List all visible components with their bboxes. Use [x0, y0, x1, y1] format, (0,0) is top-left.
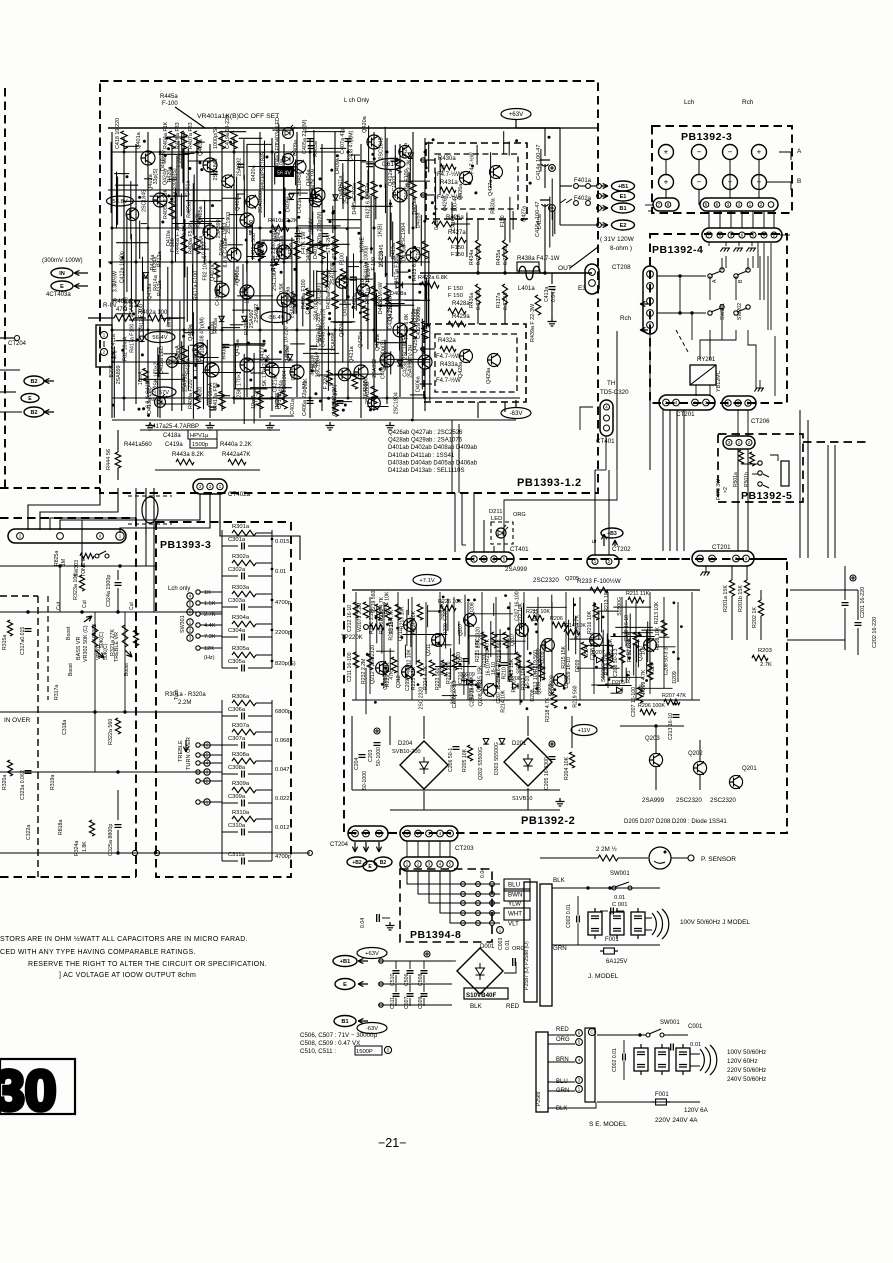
svg-text:2SA992: 2SA992	[372, 359, 378, 378]
module driver lower inner box	[435, 334, 517, 392]
wire amp column x160	[159, 138, 161, 418]
node amp dot 86	[408, 276, 411, 279]
wire amp seg v76	[158, 355, 160, 378]
node amp dot 83	[347, 295, 350, 298]
wire amp seg v30	[142, 275, 144, 341]
wire amp seg v24	[389, 200, 391, 257]
svg-text:IN OVER: IN OVER	[4, 717, 31, 724]
wire pb2 seg h2	[402, 634, 447, 636]
capacitor C413a 0.047	[551, 273, 553, 284]
node pb2 dot 49	[459, 663, 462, 666]
svg-text:HPV1µ: HPV1µ	[190, 433, 209, 439]
node amp dot 92	[411, 418, 414, 421]
node amp dot 89	[211, 204, 214, 207]
wire amp stub 13	[163, 353, 177, 355]
wire pb2 seg v28	[649, 622, 651, 663]
svg-text:C507: C507	[404, 996, 410, 1009]
wire amp seg v69	[126, 215, 128, 292]
svg-text:R204 10K: R204 10K	[564, 756, 570, 780]
resistor amp extra 1	[340, 269, 346, 284]
svg-text:R440a 2.2K: R440a 2.2K	[220, 442, 252, 448]
wire pb1392-2 col 440	[439, 592, 441, 688]
resistor C207 16-100	[637, 687, 643, 703]
svg-text:C510: C510	[390, 973, 396, 986]
diode amp extra 43	[397, 361, 402, 366]
wire amp column x374	[373, 132, 375, 411]
svg-text:2.7K: 2.7K	[760, 662, 772, 668]
node amp dot 87	[266, 156, 269, 159]
node amp dot 1	[143, 140, 146, 143]
resistor 13.6mA	[181, 346, 187, 364]
svg-text:Q425a: Q425a	[358, 332, 364, 348]
wire amp stub 0	[236, 193, 245, 195]
wire left CT204 stub	[0, 337, 14, 339]
node amp dot 85	[328, 333, 331, 336]
wire amp seg v9	[138, 327, 140, 381]
wire lower driver verticals	[477, 304, 479, 324]
wire amp seg v0	[313, 130, 315, 165]
svg-text:C510, C511 :: C510, C511 :	[300, 1048, 336, 1055]
node amp dot 37	[277, 254, 280, 257]
node pb2 dot 43	[520, 700, 523, 703]
resistor amp extra 21	[214, 262, 220, 277]
wire pb2 seg v17	[519, 661, 521, 705]
wire amp seg v82	[184, 219, 186, 277]
wire pb2 seg v49	[490, 621, 492, 657]
svg-text:C405a 22p(M): C405a 22p(M)	[302, 119, 308, 154]
wire amp seg v78	[183, 153, 185, 224]
diode amp extra 3	[143, 273, 148, 278]
wire spk drops2	[665, 189, 667, 198]
resistor R137a 0.225W	[502, 284, 507, 304]
svg-text:R215 15K: R215 15K	[561, 645, 567, 668]
resistor D407a	[319, 241, 325, 259]
diode D207	[597, 657, 603, 663]
svg-text:2SC1845: 2SC1845	[378, 137, 384, 159]
svg-text:2SA1008: 2SA1008	[314, 298, 320, 320]
svg-text:D208: D208	[530, 689, 536, 701]
svg-text:Q428a: Q428a	[458, 362, 464, 378]
svg-text:R436a: R436a	[469, 293, 475, 308]
wire amp seg h13	[261, 239, 294, 241]
connector CT203 row2	[400, 857, 458, 871]
wire pb2 seg v45	[647, 622, 649, 663]
wire tone row extend 612	[160, 611, 222, 613]
terminal speaker − B	[692, 175, 707, 190]
svg-text:2SK 170×2: 2SK 170×2	[237, 371, 243, 397]
svg-text:R212 10K: R212 10K	[518, 602, 524, 625]
svg-text:F82 10mA: F82 10mA	[208, 382, 214, 407]
wire pb3 strip drop 731	[730, 211, 732, 228]
diode amp extra 35	[288, 194, 293, 199]
svg-text:C325a 8800p: C325a 8800p	[108, 824, 114, 856]
resistor amp extra 29	[291, 292, 297, 307]
wire staircase left 2	[40, 488, 118, 530]
wire long feed ct202	[594, 470, 596, 528]
wire amp seg h45	[190, 151, 211, 153]
svg-text:2SC 2320: 2SC 2320	[418, 687, 424, 710]
node pb2 dot 2	[504, 594, 507, 597]
capacitor amp extra 38	[222, 345, 229, 348]
wire pb2 seg h16	[491, 640, 525, 642]
node amp dot 60	[288, 219, 291, 222]
terminal B1 bottom	[334, 1016, 356, 1027]
svg-text:470: 470	[275, 233, 281, 242]
ground row2 c	[746, 248, 756, 252]
wire amp seg v39	[313, 270, 315, 297]
wire amp seg h61	[247, 143, 272, 145]
transistor Q410a 2SG1024	[205, 363, 219, 377]
capacitor C203 50-1000	[374, 728, 380, 734]
svg-text:C408 47p(M): C408 47p(M)	[348, 130, 354, 161]
resistor C419a 10-220	[231, 131, 237, 149]
svg-text:C210 16-10: C210 16-10	[469, 680, 475, 707]
svg-text:×2: ×2	[723, 487, 729, 493]
board PB1393-3 dashed line left	[135, 518, 137, 877]
wire se wires	[548, 1034, 575, 1036]
transistor amp extra 40	[368, 397, 381, 410]
resistor R220 47K	[491, 632, 497, 648]
wire drv seg v0	[509, 197, 511, 243]
svg-text:D410ab D411ab : 1SS41: D410ab D411ab : 1SS41	[388, 453, 455, 459]
svg-text:C003: C003	[498, 937, 504, 950]
svg-text:D406a: D406a	[306, 247, 312, 263]
svg-text:F001: F001	[655, 1092, 669, 1098]
svg-text:R307a: R307a	[232, 723, 250, 729]
wire pb3 crossbar	[648, 210, 653, 212]
wire amp seg v91	[409, 156, 411, 181]
node amp dot 19	[247, 342, 250, 345]
svg-text:Cut: Cut	[129, 602, 135, 610]
wire amp seg h56	[239, 137, 262, 139]
wire amp seg h1	[387, 358, 430, 360]
wire amp seg v37	[192, 244, 194, 273]
switch pin 1	[187, 619, 193, 625]
svg-text:2SC1904: 2SC1904	[401, 223, 407, 246]
svg-text:C203: C203	[368, 749, 374, 762]
svg-text:Q421a: Q421a	[349, 345, 355, 363]
svg-text:CT208: CT208	[612, 264, 631, 271]
svg-text:C204: C204	[354, 757, 360, 770]
switch pin 4	[187, 593, 193, 599]
svg-text:30: 30	[0, 1059, 56, 1123]
svg-text:TURN OVER: TURN OVER	[186, 737, 192, 770]
wire VLT	[450, 871, 500, 923]
connector se pin 3	[576, 1077, 583, 1084]
wire amp seg h14	[184, 332, 194, 334]
svg-text:C310a: C310a	[228, 823, 246, 829]
svg-text:2SA999: 2SA999	[505, 566, 528, 573]
svg-text:R420a: R420a	[186, 358, 192, 374]
wire amp seg v20	[426, 278, 428, 329]
wire pb2 seg v27	[522, 603, 524, 635]
wire amp seg h53	[334, 373, 382, 375]
wire amp seg h2	[351, 205, 393, 207]
terminal speaker − A	[692, 145, 707, 160]
diode D208	[513, 683, 519, 689]
resistor amp extra 17	[327, 370, 333, 385]
svg-text:0.015: 0.015	[275, 539, 290, 545]
svg-text:R404a F1K: R404a F1K	[163, 121, 169, 149]
wire pb4 extra	[679, 276, 681, 313]
wire pb2 seg h18	[585, 644, 614, 646]
wire tone mid row	[0, 611, 160, 613]
wire bead ellipse	[142, 497, 158, 523]
wire pb2 seg v37	[447, 599, 449, 631]
node amp dot 15	[333, 257, 336, 260]
svg-text:C302a: C302a	[228, 567, 246, 573]
wire amp seg v93	[302, 296, 304, 326]
resistor R206	[552, 622, 568, 628]
wire amp seg v16	[312, 212, 314, 252]
wire amp seg v34	[327, 253, 329, 287]
svg-text:R441a560: R441a560	[124, 442, 152, 448]
terminal speaker + A	[659, 145, 674, 160]
svg-text:+: +	[664, 148, 669, 157]
wire sw verticals	[725, 256, 727, 268]
wire pb2 seg h0	[577, 667, 620, 669]
power +63V oval	[501, 109, 531, 120]
wire amp bus y228	[112, 227, 360, 229]
node amp dot 58	[132, 313, 135, 316]
wire amp seg v38	[401, 333, 403, 369]
board PB1392-2 outline	[344, 559, 787, 833]
wire amp seg h37	[123, 200, 167, 202]
svg-text:3.3M½W: 3.3M½W	[111, 271, 118, 292]
wire amp column x197	[196, 138, 198, 397]
wire amp seg v74	[282, 304, 284, 325]
wire amp seg v41	[278, 124, 280, 162]
wire dashed right ext	[803, 441, 870, 443]
svg-text:R430a: R430a	[438, 156, 456, 162]
wire amp seg v36	[253, 353, 255, 424]
svg-text:4.4K: 4.4K	[204, 623, 216, 629]
wire se frame	[585, 1028, 595, 1102]
svg-text:R206 100K: R206 100K	[638, 703, 665, 709]
node amp dot 33	[265, 359, 268, 362]
resistor STV-2H	[332, 236, 338, 254]
node amp dot 94	[121, 349, 124, 352]
svg-text:C210 16-10: C210 16-10	[624, 615, 630, 642]
wire pb2 seg h29	[495, 634, 506, 636]
wire bus down x663	[662, 410, 664, 551]
svg-text:F470 3W: F470 3W	[716, 479, 722, 500]
node amp dot 59	[126, 175, 129, 178]
wire amp seg h50	[234, 388, 267, 390]
wire tone vertical extra	[59, 566, 61, 612]
svg-text:B1: B1	[341, 1019, 348, 1025]
wire dashed pb1392-2 top extension	[644, 558, 690, 560]
node amp dot 5	[328, 312, 331, 315]
wire amp seg v50	[427, 280, 429, 324]
wire amp seg h4	[175, 363, 203, 365]
wire amp seg v32	[428, 251, 430, 327]
resistor R405a 120K	[169, 201, 175, 219]
node amp dot 23	[256, 307, 259, 310]
svg-text:−: −	[728, 148, 733, 157]
svg-text:OUT: OUT	[558, 265, 572, 272]
svg-text:R434a: R434a	[469, 250, 475, 265]
node pb2 dot 10	[650, 662, 653, 665]
wire amp column x310	[309, 138, 311, 418]
node amp dot 46	[199, 161, 202, 164]
node pb2 dot 53	[680, 625, 683, 628]
wire amp seg v106	[157, 347, 159, 417]
svg-text:S1VB10: S1VB10	[512, 796, 533, 802]
svg-text:YB12MC: YB12MC	[716, 370, 722, 392]
wire amp seg h15	[386, 283, 425, 285]
svg-text:C508: C508	[418, 973, 424, 986]
wire amp seg v87	[390, 213, 392, 241]
svg-text:CT201: CT201	[712, 544, 731, 551]
svg-text:TP220K: TP220K	[341, 635, 363, 641]
wire YLW	[429, 871, 500, 903]
svg-text:0.5K: 0.5K	[279, 283, 285, 294]
wire amp seg h20	[229, 214, 244, 216]
transistor Q212 2SR117	[376, 662, 389, 675]
wire amp stub 10	[412, 283, 424, 285]
svg-text:C409a: C409a	[285, 287, 291, 303]
wire amp seg v64	[187, 346, 189, 391]
svg-text:4700p: 4700p	[275, 600, 291, 606]
transistor VR402	[277, 245, 291, 259]
svg-text:CT402a: CT402a	[228, 491, 251, 498]
svg-text:0.5K: 0.5K	[303, 378, 309, 389]
wire ladder2 right C310a	[271, 819, 273, 832]
wire amp seg v61	[139, 221, 141, 259]
wire -63V stem	[515, 400, 517, 408]
svg-text:-63V: -63V	[509, 410, 523, 417]
wire pb1392-2 col 384	[383, 602, 385, 688]
wire pb1392-2 col 398	[397, 592, 399, 682]
wire amp seg h34	[305, 131, 345, 133]
svg-text:R221: R221	[533, 609, 539, 621]
wire amp seg h70	[318, 348, 335, 350]
resistor 3.3M½W	[384, 286, 390, 304]
svg-text:E2: E2	[620, 223, 627, 229]
wire pb2 seg v33	[602, 630, 604, 679]
wire amp seg h43	[186, 200, 222, 202]
transistor Q416a 2SC1845	[240, 358, 254, 372]
wire pb1392-2 col 566	[565, 592, 567, 682]
wire pb2 seg v1	[458, 621, 460, 633]
resistor C418 10-220	[121, 131, 127, 149]
svg-text:58.8V: 58.8V	[112, 199, 127, 205]
resistor R423 6.8K	[410, 321, 416, 339]
node amp dot 82	[161, 221, 164, 224]
transistor Q204 2SC 2320	[644, 639, 657, 652]
wire jack links	[741, 463, 758, 465]
transistor Q403a 2SA898	[203, 158, 217, 172]
node pb2 dot 37	[475, 683, 478, 686]
svg-text:Q418a: Q418a	[147, 284, 153, 300]
svg-text:C305a: C305a	[228, 659, 246, 665]
svg-text:B1: B1	[619, 206, 626, 212]
wire CT402a drop 1	[60, 494, 200, 530]
wire pb2 seg v7	[376, 607, 378, 644]
resistor R214 10K	[564, 629, 580, 635]
resistor R410a 2.2K	[271, 225, 289, 231]
svg-text:CT203: CT203	[455, 845, 474, 852]
svg-text:33p(S): 33p(S)	[296, 227, 302, 243]
svg-text:0.22-5W: 0.22-5W	[476, 290, 482, 310]
connector aux right	[722, 396, 756, 410]
ground rect	[556, 798, 565, 806]
terminal speaker − A	[723, 145, 738, 160]
wire ladder2 right C307a	[271, 732, 273, 745]
node amp dot 51	[330, 169, 333, 172]
svg-text:Q201: Q201	[742, 766, 757, 772]
svg-text:C423a 2SC1845: C423a 2SC1845	[297, 174, 303, 213]
svg-text:C423a 2SC1845: C423a 2SC1845	[403, 337, 409, 376]
wire amp seg v94	[311, 187, 313, 234]
resistor R446a F-100	[181, 236, 187, 254]
wire pb2 seg v42	[646, 630, 648, 674]
wire amp seg h42	[377, 342, 406, 344]
svg-text:F401a: F401a	[574, 178, 592, 184]
transistor Q212 2SC2320	[402, 666, 415, 679]
wire amp seg h35	[339, 160, 366, 162]
wire pb1392-2 col 678	[677, 602, 679, 682]
svg-text:C304a: C304a	[228, 628, 246, 634]
power +63V bottom oval	[357, 948, 387, 959]
svg-text:R201b 15K: R201b 15K	[738, 585, 744, 612]
svg-text:Boost: Boost	[68, 663, 74, 676]
transformer J winding3	[631, 912, 645, 935]
node amp dot 70	[319, 177, 322, 180]
wire pb1392-2 col 454	[453, 597, 455, 682]
svg-text:56.4V: 56.4V	[162, 150, 168, 164]
svg-text:ORG: ORG	[513, 512, 526, 518]
svg-text:C: C	[590, 1030, 593, 1035]
transistor Q207 2SC2320	[464, 614, 477, 627]
wire pb2 seg v8	[575, 616, 577, 654]
wire pb1392-2 col 538	[537, 597, 539, 694]
svg-text:0.04: 0.04	[360, 918, 366, 928]
svg-text:240V 50/60Hz: 240V 50/60Hz	[727, 1076, 766, 1083]
wire spk drop x699	[698, 159, 700, 175]
svg-text:0.22 5W: 0.22 5W	[476, 246, 482, 265]
svg-text:GRN: GRN	[553, 945, 567, 952]
svg-text:0.047: 0.047	[551, 289, 557, 302]
wire long down 1	[616, 331, 618, 470]
svg-text:C001: C001	[688, 1024, 703, 1030]
diode amp extra 19	[333, 195, 338, 200]
node drv dot 9	[432, 138, 435, 141]
wire pb2 seg h19	[453, 684, 480, 686]
wire amp seg v75	[295, 245, 297, 314]
node pb2 dot 16	[673, 601, 676, 604]
node pb2 dot 0	[626, 674, 629, 677]
switch tap 7.3K	[196, 634, 200, 638]
node amp dot 71	[164, 154, 167, 157]
wire mid connector drop	[300, 559, 344, 561]
node pb2 dot 5	[593, 654, 596, 657]
svg-text:R422a 6.8K: R422a 6.8K	[418, 275, 448, 281]
capacitor C420a 220p(M)	[322, 234, 329, 237]
wire amp seg v102	[206, 340, 208, 406]
resistor R211 11K	[628, 597, 644, 603]
svg-text:C414a: C414a	[451, 215, 457, 230]
svg-text:C417a25-4.7ARBP: C417a25-4.7ARBP	[148, 424, 199, 430]
svg-text:+B1: +B1	[340, 959, 350, 965]
svg-text:R213 10K: R213 10K	[400, 606, 406, 629]
svg-text:R210: R210	[512, 680, 518, 692]
switch pin 3	[187, 635, 193, 641]
resistor R226 10K	[440, 605, 456, 611]
terminal speaker − B	[723, 175, 738, 190]
transistor Q208	[484, 684, 497, 697]
